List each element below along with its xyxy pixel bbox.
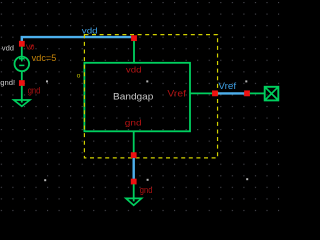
svg-text:Bandgap: Bandgap [113, 92, 153, 103]
major grid dot [245, 80, 247, 82]
svg-text:gnd: gnd [140, 185, 153, 195]
wire Vref (blue net segment) [217, 92, 244, 94]
selection bbox (dashed) of bandgap instance [84, 35, 217, 158]
major grid dot [44, 179, 46, 181]
V0 plus sign [19, 56, 25, 61]
V0 circle [14, 57, 29, 72]
V0 top lead [21, 44, 23, 57]
wire gnd (blue net segment, bottom) [132, 158, 134, 180]
pin square bandgap vdd [131, 35, 137, 41]
pin square bandgap Vref [212, 90, 218, 96]
major grid dot [246, 178, 248, 180]
major grid dot [146, 80, 148, 82]
svg-text:o: o [77, 72, 81, 79]
pin square bandgap gnd [131, 152, 137, 158]
major grid dot [147, 179, 149, 181]
svg-text:gnd: gnd [28, 86, 41, 96]
svg-text:Vref: Vref [167, 87, 186, 98]
bandgap instance symbol body [84, 63, 190, 132]
ground symbol gnd1 (left) [14, 86, 30, 107]
bandgap gnd pin stub [133, 131, 135, 153]
voltage source V0 (vdc=5) [14, 44, 29, 83]
output port symbol Vref (square with X) [250, 87, 279, 101]
svg-text:vdc=5: vdc=5 [32, 53, 57, 63]
ground symbol gnd2 (bottom) [126, 184, 142, 205]
bandgap Vref pin stub [190, 92, 213, 94]
svg-text:V0: V0 [26, 44, 35, 51]
svg-text:vdd: vdd [126, 64, 142, 74]
pin square gnd2 symbol [131, 179, 137, 185]
svg-text:gnd: gnd [125, 117, 142, 127]
svg-text:Vref: Vref [218, 81, 236, 92]
V0 minus sign [19, 64, 24, 66]
pin square V0 minus / gnd [19, 80, 25, 86]
major grid dot [46, 80, 48, 82]
svg-text:vdd: vdd [2, 46, 14, 53]
wire vdd (net from V0 to Bandgap vdd pin) [22, 37, 134, 42]
svg-text:gnd!: gnd! [0, 80, 15, 87]
bandgap vdd pin stub [133, 41, 135, 63]
V0 bottom lead [21, 71, 23, 83]
pin square port Vref [244, 90, 250, 96]
pin square V0 plus [19, 41, 25, 47]
